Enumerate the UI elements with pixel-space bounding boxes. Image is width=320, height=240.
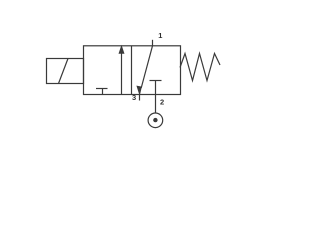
port 3 stub (bottom left) [139,95,141,101]
right position blocked port T (port 2) [150,81,162,95]
port 2 line (down to gauge) [155,95,157,114]
pressure indicator center dot [153,118,157,122]
right position flow arrow (diagonal, port 1 to port 3) [137,46,152,94]
pressure indicator circle [148,113,163,128]
left position blocked port T [96,89,108,95]
solenoid Y1 diagonal [59,59,69,84]
port 1 stub (top) [152,40,154,46]
svg-text:2: 2 [160,98,164,107]
valve body V1 (2-position 3/2 valve, outer rectangle) [84,46,181,95]
svg-text:3: 3 [132,93,136,102]
valve position divider [131,46,133,95]
svg-text:1: 1 [158,31,162,40]
spring (return spring zigzag) [180,54,220,81]
solenoid Y1 (actuator box) [47,59,84,84]
left position flow arrow (up) [119,46,124,94]
